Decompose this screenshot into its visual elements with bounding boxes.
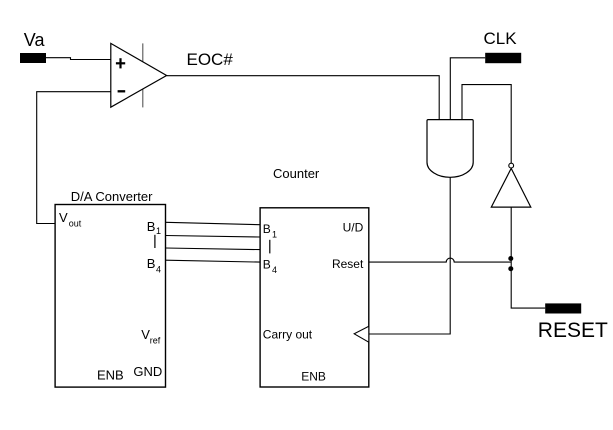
svg-text:1: 1 xyxy=(272,230,277,240)
svg-text:B: B xyxy=(147,256,156,271)
inverter U3 bubble xyxy=(509,163,514,168)
D/A converter block U4 xyxy=(55,205,165,388)
terminal CLK xyxy=(485,53,521,63)
svg-text:Va: Va xyxy=(24,30,46,50)
wire bus bit B4 xyxy=(166,260,261,262)
svg-text:ref: ref xyxy=(150,336,161,346)
bus range bar (counter) xyxy=(269,240,271,254)
pin B4 (counter) xyxy=(263,258,277,276)
svg-text:Reset: Reset xyxy=(332,257,364,271)
junction dot lower xyxy=(508,266,513,271)
svg-text:RESET: RESET xyxy=(538,319,608,342)
wire bus bit 3 xyxy=(166,248,261,250)
pin Vref xyxy=(141,327,161,346)
counter block U5 xyxy=(260,208,369,387)
svg-text:GND: GND xyxy=(133,364,162,379)
svg-text:out: out xyxy=(69,219,82,229)
wire EOC# comparator output to AND gate xyxy=(167,76,440,120)
wire counter Reset with crossover hop xyxy=(369,258,511,262)
svg-text:B: B xyxy=(263,222,271,236)
svg-text:CLK: CLK xyxy=(484,29,518,48)
wire bus bit B1 xyxy=(166,222,261,224)
svg-text:U/D: U/D xyxy=(343,221,364,235)
svg-text:ENB: ENB xyxy=(301,370,326,384)
clock input triangle xyxy=(354,326,369,342)
AND gate U2 xyxy=(427,120,473,178)
svg-text:4: 4 xyxy=(272,265,277,275)
svg-text:EOC#: EOC# xyxy=(187,50,234,69)
wire CLK to AND gate xyxy=(450,58,485,120)
svg-text:V: V xyxy=(59,210,68,225)
wire inverter output to RESET terminal xyxy=(511,207,545,308)
svg-text:Carry out: Carry out xyxy=(263,328,313,342)
wire AND output down to counter clock xyxy=(369,177,450,334)
wire comparator - input feedback xyxy=(37,92,111,224)
svg-text:B: B xyxy=(147,219,156,234)
svg-text:B: B xyxy=(263,258,271,272)
svg-text:4: 4 xyxy=(156,265,161,275)
svg-text:D/A Converter: D/A Converter xyxy=(71,189,153,204)
pin B1 (D/A) xyxy=(147,219,161,236)
svg-text:1: 1 xyxy=(156,226,161,236)
wire AND gate input stub to inverter xyxy=(462,85,511,164)
bus range bar (D/A) xyxy=(154,235,156,248)
svg-text:ENB: ENB xyxy=(97,368,124,383)
pin Vout xyxy=(59,210,82,229)
junction dot upper xyxy=(508,256,513,261)
terminal Va xyxy=(20,53,46,63)
wire bus bit 2 xyxy=(166,236,261,238)
pin B4 (D/A) xyxy=(147,256,161,275)
comparator U1 xyxy=(111,43,167,107)
svg-text:Counter: Counter xyxy=(273,166,320,181)
inverter U3 xyxy=(491,168,531,207)
terminal RESET xyxy=(545,303,581,313)
pin B1 (counter) xyxy=(263,222,277,240)
wire Va to comparator + input xyxy=(46,58,111,60)
